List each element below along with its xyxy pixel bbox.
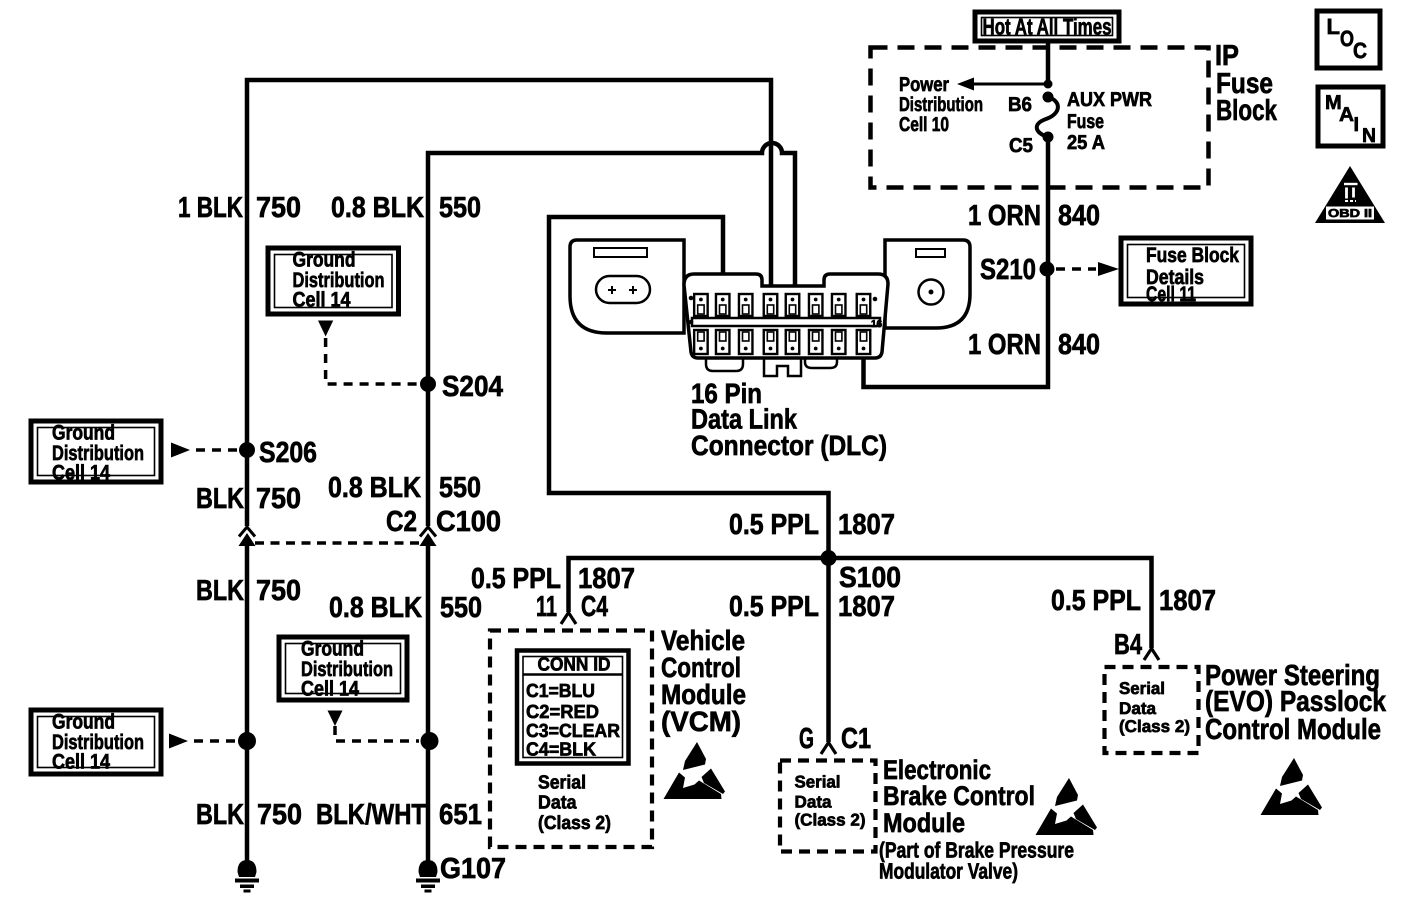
svg-text:11: 11 bbox=[536, 591, 557, 623]
svg-text:Serial: Serial bbox=[795, 773, 841, 792]
svg-text:0.5 PPL: 0.5 PPL bbox=[729, 591, 819, 623]
svg-text:Modulator Valve): Modulator Valve) bbox=[879, 859, 1018, 884]
svg-text:L: L bbox=[1327, 14, 1340, 39]
svg-text:B6: B6 bbox=[1008, 94, 1032, 116]
svg-text:BLK: BLK bbox=[196, 575, 244, 607]
svg-text:CONN ID: CONN ID bbox=[538, 655, 611, 676]
svg-text:B4: B4 bbox=[1114, 629, 1142, 661]
svg-text:C2: C2 bbox=[386, 506, 417, 538]
svg-text:BLK/WHT: BLK/WHT bbox=[316, 799, 426, 831]
svg-text:550: 550 bbox=[439, 472, 481, 504]
svg-text:S100: S100 bbox=[839, 562, 901, 594]
svg-text:1807: 1807 bbox=[838, 509, 895, 541]
svg-text:C1: C1 bbox=[841, 723, 871, 755]
svg-text:(Class 2): (Class 2) bbox=[1119, 717, 1190, 736]
svg-text:0.8 BLK: 0.8 BLK bbox=[328, 472, 421, 504]
svg-text:BLK: BLK bbox=[196, 483, 244, 515]
svg-text:(Class 2): (Class 2) bbox=[795, 811, 866, 830]
svg-text:Data: Data bbox=[538, 793, 577, 814]
svg-text:I: I bbox=[1354, 114, 1360, 136]
svg-text:AUX PWR: AUX PWR bbox=[1067, 89, 1152, 111]
svg-text:840: 840 bbox=[1058, 329, 1100, 361]
svg-text:750: 750 bbox=[257, 799, 302, 831]
svg-text:Cell 14: Cell 14 bbox=[301, 678, 359, 701]
svg-text:1 BLK: 1 BLK bbox=[178, 192, 243, 224]
svg-text:0.5 PPL: 0.5 PPL bbox=[729, 509, 819, 541]
svg-text:Connector (DLC): Connector (DLC) bbox=[691, 430, 887, 461]
svg-text:750: 750 bbox=[256, 483, 301, 515]
svg-text:BLK: BLK bbox=[196, 799, 244, 831]
svg-text:G107: G107 bbox=[440, 853, 506, 885]
svg-text:651: 651 bbox=[439, 799, 482, 831]
svg-text:C4: C4 bbox=[581, 591, 608, 623]
svg-text:1807: 1807 bbox=[838, 591, 895, 623]
svg-text:Data: Data bbox=[795, 793, 833, 812]
svg-text:C5: C5 bbox=[1009, 135, 1033, 157]
svg-text:(Class 2): (Class 2) bbox=[538, 813, 611, 834]
svg-text:750: 750 bbox=[256, 192, 301, 224]
svg-text:Block: Block bbox=[1216, 95, 1278, 127]
svg-text:Hot At All Times: Hot At All Times bbox=[983, 14, 1112, 40]
svg-text:OBD II: OBD II bbox=[1328, 208, 1372, 220]
svg-text:Data: Data bbox=[1119, 699, 1157, 718]
svg-text:0.8 BLK: 0.8 BLK bbox=[329, 592, 422, 624]
svg-text:550: 550 bbox=[439, 192, 481, 224]
svg-text:C2=RED: C2=RED bbox=[526, 702, 599, 723]
svg-text:Cell 10: Cell 10 bbox=[899, 114, 949, 136]
svg-text:A: A bbox=[1339, 104, 1354, 126]
svg-text:Module: Module bbox=[883, 808, 965, 838]
svg-text:Serial: Serial bbox=[1119, 679, 1165, 698]
svg-text:Cell 14: Cell 14 bbox=[52, 462, 110, 485]
svg-text:Distribution: Distribution bbox=[899, 94, 983, 116]
svg-text:S204: S204 bbox=[442, 371, 503, 403]
svg-text:S206: S206 bbox=[259, 437, 317, 469]
svg-text:Cell 14: Cell 14 bbox=[293, 289, 351, 312]
svg-text:1807: 1807 bbox=[1159, 585, 1216, 617]
svg-text:Power: Power bbox=[899, 74, 949, 96]
svg-text:Fuse: Fuse bbox=[1067, 111, 1104, 133]
svg-text:Control Module: Control Module bbox=[1205, 714, 1381, 746]
svg-text:16: 16 bbox=[871, 319, 883, 330]
svg-text:O: O bbox=[1340, 26, 1354, 51]
svg-text:0.8 BLK: 0.8 BLK bbox=[331, 192, 424, 224]
svg-text:Serial: Serial bbox=[538, 773, 586, 794]
svg-text:C100: C100 bbox=[436, 506, 501, 538]
svg-text:S210: S210 bbox=[980, 254, 1036, 286]
svg-text:750: 750 bbox=[256, 575, 301, 607]
svg-text:Brake Control: Brake Control bbox=[883, 781, 1035, 811]
svg-text:N: N bbox=[1362, 125, 1376, 147]
svg-text:G: G bbox=[799, 723, 814, 755]
svg-text:Cell 11: Cell 11 bbox=[1146, 283, 1196, 306]
svg-text:Cell 14: Cell 14 bbox=[52, 751, 110, 774]
svg-text:1 ORN: 1 ORN bbox=[968, 329, 1041, 361]
svg-text:1 ORN: 1 ORN bbox=[968, 200, 1041, 232]
svg-text:840: 840 bbox=[1058, 200, 1100, 232]
svg-text:550: 550 bbox=[440, 592, 482, 624]
svg-text:C1=BLU: C1=BLU bbox=[526, 681, 595, 702]
svg-text:C4=BLK: C4=BLK bbox=[526, 740, 596, 761]
svg-text:(VCM): (VCM) bbox=[661, 706, 741, 737]
svg-text:C: C bbox=[1353, 38, 1367, 63]
svg-text:Fuse Block: Fuse Block bbox=[1146, 244, 1239, 267]
svg-text:0.5 PPL: 0.5 PPL bbox=[1051, 585, 1141, 617]
svg-text:25 A: 25 A bbox=[1067, 132, 1105, 154]
